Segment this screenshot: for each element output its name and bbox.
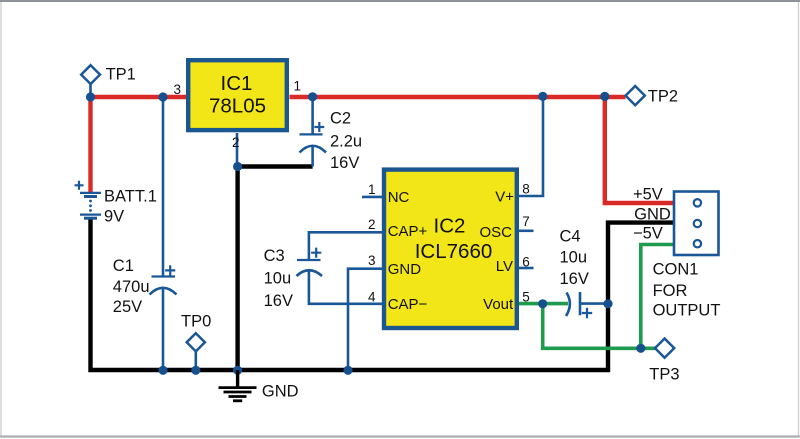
svg-text:CAP−: CAP− — [388, 296, 428, 313]
svg-text:Vout: Vout — [483, 296, 514, 313]
svg-text:16V: 16V — [264, 292, 293, 310]
svg-text:25V: 25V — [113, 298, 142, 316]
svg-text:C1: C1 — [113, 257, 134, 275]
svg-text:470u: 470u — [113, 278, 150, 296]
svg-text:TP1: TP1 — [106, 66, 136, 84]
svg-text:16V: 16V — [560, 270, 589, 288]
svg-text:LV: LV — [496, 258, 513, 275]
svg-text:C2: C2 — [330, 110, 351, 128]
svg-text:−5V: −5V — [633, 224, 663, 242]
svg-text:CAP+: CAP+ — [388, 223, 428, 240]
svg-text:OSC: OSC — [479, 224, 512, 241]
svg-text:FOR: FOR — [653, 282, 688, 300]
svg-text:BATT.1: BATT.1 — [104, 188, 157, 206]
svg-text:V+: V+ — [495, 189, 514, 206]
svg-text:6: 6 — [522, 254, 530, 269]
svg-text:IC1: IC1 — [221, 72, 253, 95]
svg-text:4: 4 — [368, 290, 376, 305]
svg-text:2: 2 — [232, 135, 240, 150]
svg-text:NC: NC — [388, 189, 410, 206]
svg-text:2: 2 — [368, 217, 376, 232]
svg-text:OUTPUT: OUTPUT — [653, 302, 721, 320]
svg-text:IC2: IC2 — [434, 215, 466, 238]
svg-text:GND: GND — [262, 383, 299, 401]
svg-text:3: 3 — [173, 82, 181, 97]
svg-text:GND: GND — [388, 261, 422, 278]
svg-text:TP3: TP3 — [649, 366, 679, 384]
svg-text:+5V: +5V — [633, 185, 663, 203]
svg-text:TP2: TP2 — [648, 88, 678, 106]
svg-text:9V: 9V — [104, 208, 124, 226]
svg-text:TP0: TP0 — [181, 313, 211, 331]
svg-text:8: 8 — [522, 181, 530, 196]
svg-text:5: 5 — [522, 290, 530, 305]
svg-text:1: 1 — [368, 182, 376, 197]
svg-text:C3: C3 — [264, 247, 285, 265]
svg-text:3: 3 — [368, 253, 376, 268]
svg-text:7: 7 — [522, 214, 530, 229]
svg-text:2.2u: 2.2u — [330, 133, 362, 151]
svg-text:C4: C4 — [560, 227, 581, 245]
svg-text:GND: GND — [634, 205, 671, 223]
svg-text:78L05: 78L05 — [209, 94, 266, 117]
svg-text:ICL7660: ICL7660 — [415, 240, 493, 263]
svg-text:1: 1 — [294, 79, 302, 94]
svg-text:10u: 10u — [560, 249, 588, 267]
svg-text:16V: 16V — [330, 154, 359, 172]
svg-text:CON1: CON1 — [653, 261, 699, 279]
svg-text:10u: 10u — [264, 269, 292, 287]
